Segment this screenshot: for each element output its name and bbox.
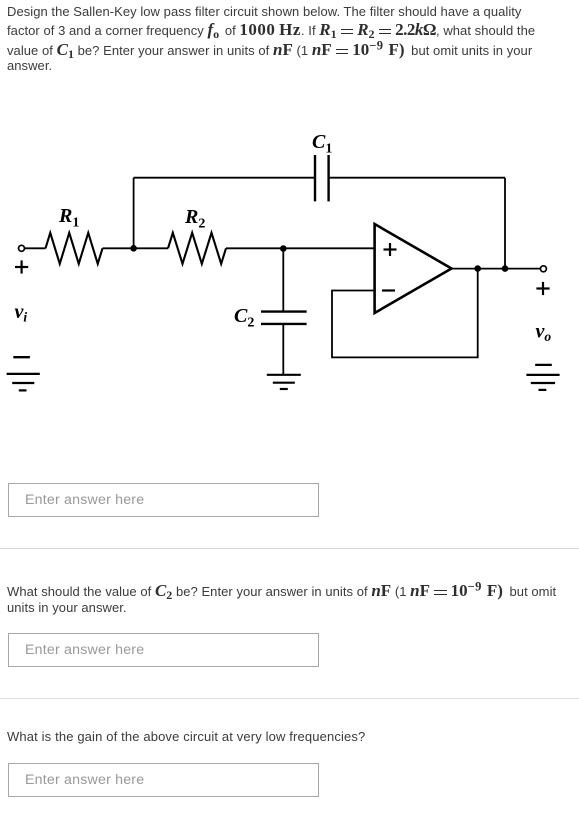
svg-text:C2: C2 <box>234 305 254 331</box>
op-amp minus input marking <box>382 289 395 291</box>
wire top rail down to output <box>504 178 506 269</box>
svg-text:vo: vo <box>536 321 552 345</box>
wire node B down to C2 <box>282 248 284 311</box>
output port plus sign <box>536 282 549 295</box>
question 2 text <box>7 584 556 599</box>
output ground <box>526 375 559 390</box>
output node junction dot 2 <box>502 265 509 272</box>
wire top rail left <box>134 177 315 179</box>
output terminal <box>540 266 546 272</box>
node A junction dot <box>130 245 137 252</box>
node B junction dot <box>280 245 287 252</box>
output node junction dot 1 <box>474 265 481 272</box>
output wire <box>452 268 541 270</box>
wire R1 to R2 <box>103 247 169 249</box>
op-amp plus input marking <box>384 243 397 256</box>
ground below C2 <box>267 375 301 389</box>
wire C2 to ground <box>282 324 284 375</box>
svg-text:C1: C1 <box>312 131 332 157</box>
input ground <box>7 374 40 391</box>
resistor R2 <box>168 233 226 264</box>
output port minus sign <box>535 364 552 366</box>
wire R2 to op-amp <box>226 247 375 249</box>
resistor R1 <box>46 233 103 264</box>
wire input to R1 <box>25 247 46 249</box>
op-amp U1 <box>375 224 452 313</box>
answer box 2 <box>8 633 319 667</box>
feedback wire to inverting input <box>332 269 478 358</box>
answer box 1 <box>8 483 319 517</box>
input port minus sign <box>13 356 30 358</box>
input port plus sign <box>15 260 28 273</box>
circuit schematic svg <box>0 0 579 420</box>
wire node A up to top rail <box>133 178 135 249</box>
capacitor C2 <box>261 312 307 324</box>
svg-text:vi: vi <box>15 301 28 325</box>
svg-text:R2: R2 <box>184 206 205 232</box>
input terminal <box>19 245 25 251</box>
svg-text:R1: R1 <box>58 205 79 231</box>
divider 1 <box>0 548 579 549</box>
divider 2 <box>0 698 579 699</box>
question 3 text <box>7 729 365 744</box>
capacitor C1 <box>315 155 329 201</box>
answer box 3 <box>8 763 319 797</box>
wire top rail right <box>329 177 505 179</box>
question 1 paragraph <box>7 4 521 19</box>
